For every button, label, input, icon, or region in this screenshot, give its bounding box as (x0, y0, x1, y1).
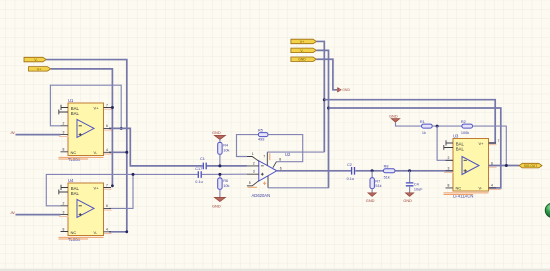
in-amp U2 (247, 152, 291, 198)
node feedback junction (436, 125, 439, 128)
resistor R1 (420, 120, 432, 135)
op-amp U4 (59, 178, 112, 242)
wire IN to U4 pin3 (16, 214, 61, 216)
resistor R2 (461, 120, 473, 135)
wire U2 pin4 to V- riser (268, 108, 329, 188)
wire U4 feedback loop / bus2 (46, 174, 197, 205)
svg-text:1: 1 (252, 152, 254, 156)
svg-text:GND: GND (342, 88, 350, 92)
svg-text:7: 7 (106, 183, 108, 187)
svg-text:8: 8 (63, 227, 65, 231)
svg-text:499: 499 (258, 138, 264, 142)
svg-text:8: 8 (279, 158, 281, 162)
wire junction to U3 pin2 (437, 126, 453, 160)
resistor R6 (218, 174, 230, 197)
svg-text:U3: U3 (453, 134, 459, 139)
svg-text:NC: NC (71, 150, 77, 155)
port V+ (top-right) (291, 39, 317, 44)
resistor R7 (370, 171, 382, 193)
wire V- riser (316, 50, 328, 187)
op-amp U1 (59, 98, 112, 162)
capacitor C17 (195, 171, 202, 184)
port V- (top-right) (291, 48, 317, 53)
svg-text:IN: IN (11, 130, 15, 135)
svg-text:V-: V- (94, 230, 98, 235)
node bus2/R6 (218, 173, 221, 176)
svg-text:GND: GND (298, 58, 306, 62)
svg-text:C1: C1 (200, 157, 205, 161)
svg-text:2: 2 (448, 156, 450, 160)
wire R1 to R2 (432, 125, 462, 127)
capacitor C1 (195, 157, 206, 171)
svg-text:V+: V+ (479, 141, 485, 146)
svg-text:SIG-OUT: SIG-OUT (524, 164, 537, 168)
wire U4 pin4 to V- riser (109, 231, 127, 233)
node U1 output junction (120, 127, 123, 130)
wire U1 feedback loop (50, 85, 121, 128)
svg-text:6: 6 (280, 166, 282, 170)
wire U4 output riser (109, 174, 133, 208)
wire R2 to output riser (473, 126, 507, 165)
ground (below C4) (403, 193, 414, 203)
svg-text:BAL: BAL (71, 191, 80, 196)
wire net V+ left (51, 69, 113, 186)
ground (left of R1) (389, 113, 422, 126)
wire U2 output bus (277, 170, 351, 172)
resistor R5 (258, 128, 268, 141)
wire U3 output (489, 165, 520, 167)
op-amp U3 (444, 134, 502, 199)
resistor R8 (384, 165, 395, 180)
svg-text:C4: C4 (414, 183, 419, 187)
svg-text:R4: R4 (223, 144, 228, 148)
ground (below R6) (212, 197, 226, 208)
svg-text:R2: R2 (461, 120, 466, 124)
port V+ (top-left) (29, 67, 51, 72)
port SIG-OUT (519, 163, 542, 168)
svg-text:R1: R1 (420, 120, 425, 124)
svg-text:10uF: 10uF (414, 187, 423, 191)
capacitor C4 (406, 171, 423, 193)
ground (above R4) (212, 130, 226, 142)
ground (below R7) (366, 193, 377, 203)
svg-text:7: 7 (498, 139, 500, 143)
svg-text:V+: V+ (94, 105, 100, 110)
svg-text:1k: 1k (422, 131, 426, 135)
svg-text:3: 3 (448, 167, 450, 171)
svg-text:NC: NC (71, 230, 77, 235)
node U4 pin7 end (111, 184, 114, 187)
svg-text:V-: V- (479, 186, 483, 191)
svg-text:V+: V+ (37, 67, 42, 71)
svg-text:4: 4 (491, 184, 493, 188)
svg-text:2: 2 (63, 202, 65, 206)
svg-text:6: 6 (106, 124, 108, 128)
wire R5 loop right to pin8 (268, 135, 303, 162)
svg-text:C2: C2 (347, 163, 352, 167)
svg-text:AD620AN: AD620AN (252, 193, 271, 198)
wire R5 loop left (237, 135, 259, 157)
node U1 pin4 junction (125, 151, 128, 154)
wire U1 pin4 to V- riser (109, 151, 127, 153)
wire U1 output to bus1 (109, 128, 203, 166)
svg-text:V+: V+ (300, 40, 305, 44)
svg-text:R7: R7 (375, 179, 380, 183)
svg-text:BAL: BAL (456, 146, 465, 151)
svg-text:2: 2 (253, 161, 255, 165)
window bottom strip (0, 269, 550, 271)
svg-text:10k: 10k (223, 184, 229, 188)
node U4 output junction (132, 173, 135, 176)
wire net V- left (46, 60, 127, 232)
svg-text:7: 7 (106, 103, 108, 107)
port GND (top-right) (291, 57, 317, 62)
svg-text:R6: R6 (223, 179, 228, 183)
wire bus to U3 pin3 (355, 170, 453, 172)
wire V+ riser (316, 41, 324, 152)
svg-text:51k: 51k (384, 176, 390, 180)
node output feedback junction (505, 164, 508, 167)
svg-text:GND: GND (212, 204, 221, 209)
resistor R4 (218, 142, 230, 166)
node V+ branch (323, 98, 326, 101)
wire IN to U1 pin3 (16, 134, 61, 136)
wire GND drop (316, 59, 337, 90)
svg-text:V-: V- (94, 150, 98, 155)
svg-text:4: 4 (106, 148, 108, 152)
svg-text:100k: 100k (461, 131, 469, 135)
svg-text:3: 3 (63, 130, 65, 134)
svg-text:3: 3 (63, 210, 65, 214)
wire V+ branch to U3 pin7 (324, 100, 495, 143)
svg-text:51k: 51k (375, 184, 381, 188)
svg-text:R5: R5 (258, 128, 263, 132)
svg-text:U4: U4 (68, 178, 74, 183)
svg-text:GND: GND (212, 130, 221, 135)
svg-text:GND: GND (389, 113, 398, 118)
svg-text:0.1u: 0.1u (195, 180, 202, 184)
power port GND (arrow) (337, 87, 350, 92)
node C4 junction (408, 169, 411, 172)
svg-text:BAL: BAL (71, 111, 80, 116)
svg-text:V+: V+ (94, 185, 100, 190)
node U1 pin7 junction (111, 106, 114, 109)
node V- branch (327, 107, 330, 110)
wire U2 pin7 to V+ riser (267, 151, 324, 153)
svg-text:8: 8 (63, 148, 65, 152)
wire V- branch to U3 pin4 (329, 108, 501, 188)
svg-text:10k: 10k (223, 148, 229, 152)
node R7 junction (371, 169, 374, 172)
svg-text:U2: U2 (285, 152, 291, 157)
svg-text:NC: NC (456, 186, 462, 191)
wire bus1 after C1 to U2 pin2 (207, 165, 247, 167)
node U4 pin4 end (125, 230, 128, 233)
svg-text:IN: IN (11, 210, 15, 215)
svg-text:GND: GND (366, 198, 375, 203)
green sphere logo (clipped at right edge) (545, 203, 550, 218)
svg-text:U1: U1 (68, 98, 74, 103)
svg-text:6: 6 (106, 204, 108, 208)
svg-text:0.1u: 0.1u (347, 177, 354, 181)
svg-text:4: 4 (106, 228, 108, 232)
port V- (top-left) (24, 57, 46, 62)
svg-text:8: 8 (448, 184, 450, 188)
svg-text:C17: C17 (195, 167, 202, 171)
svg-text:7: 7 (263, 154, 265, 158)
svg-text:GND: GND (403, 198, 412, 203)
wire bus2 after C17 to U2 pin3 (202, 173, 247, 175)
svg-text:5: 5 (249, 181, 251, 185)
svg-text:3: 3 (253, 170, 255, 174)
svg-text:2: 2 (63, 122, 65, 126)
svg-text:R8: R8 (384, 165, 389, 169)
capacitor C2 (347, 163, 355, 181)
node bus1/R4 (218, 164, 221, 167)
